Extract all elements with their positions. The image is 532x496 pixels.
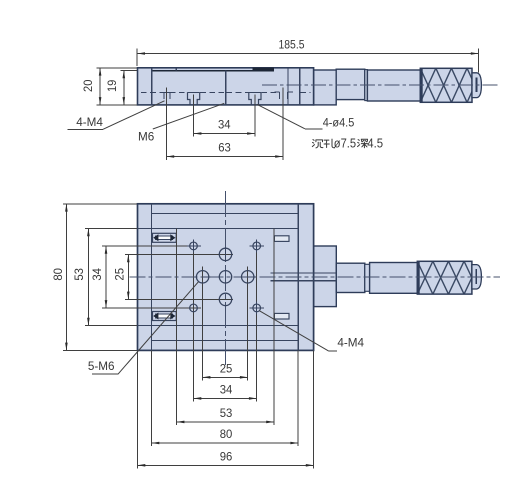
svg-text:5-M6: 5-M6 [88, 360, 115, 373]
svg-text:M6: M6 [138, 130, 154, 143]
svg-text:25: 25 [220, 362, 233, 375]
svg-text:ø7.5: ø7.5 [334, 135, 356, 150]
svg-text:4-M4: 4-M4 [76, 116, 103, 129]
svg-text:53: 53 [220, 407, 233, 420]
svg-text:80: 80 [52, 268, 65, 281]
svg-text:185.5: 185.5 [279, 39, 305, 52]
svg-text:53: 53 [73, 268, 86, 281]
svg-text:25: 25 [114, 268, 127, 281]
svg-text:4.5: 4.5 [367, 135, 383, 150]
svg-text:34: 34 [218, 119, 231, 132]
svg-text:4-M4: 4-M4 [337, 336, 364, 349]
svg-text:34: 34 [91, 268, 104, 281]
svg-text:20: 20 [82, 79, 95, 92]
svg-text:34: 34 [220, 383, 233, 396]
svg-text:4-ø4.5: 4-ø4.5 [323, 117, 355, 130]
svg-text:19: 19 [106, 80, 119, 92]
svg-text:96: 96 [220, 450, 233, 463]
svg-text:63: 63 [218, 141, 231, 154]
svg-text:80: 80 [220, 428, 233, 441]
